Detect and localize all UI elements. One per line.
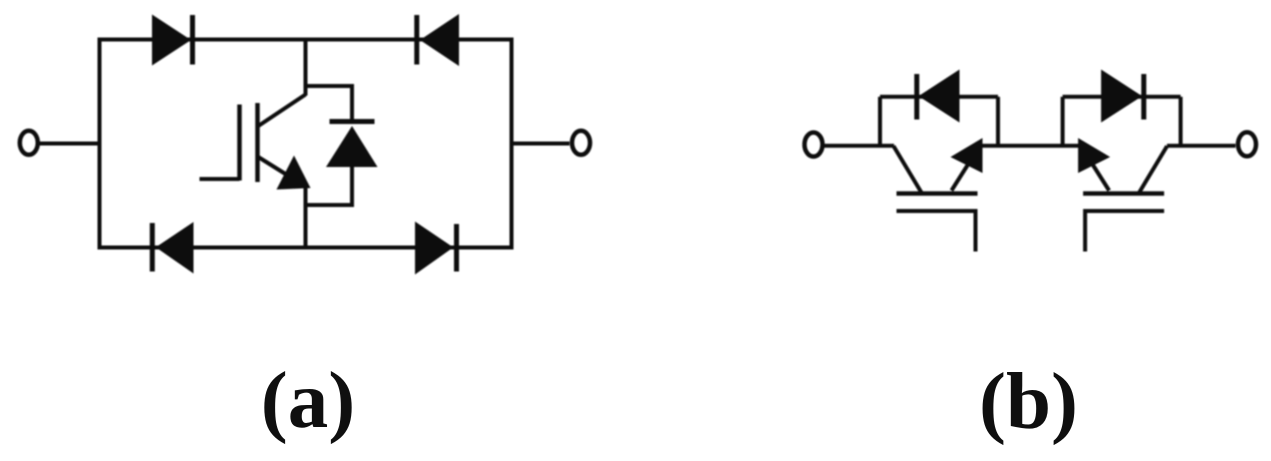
IGBT Q2 emitter diagonal bbox=[952, 155, 975, 191]
IGBT Q2 collector diagonal bbox=[894, 146, 923, 194]
IGBT Q2 emitter arrow bbox=[951, 138, 983, 173]
diode D3 bottom-left triangle bbox=[156, 222, 194, 274]
IGBT Q1 gate lead bbox=[200, 177, 240, 181]
IGBT Q2 diode loop right vertical bbox=[996, 97, 1000, 146]
diode D2 cathode bar bbox=[414, 15, 419, 65]
terminal circle left of circuit (a) bbox=[20, 131, 38, 155]
IGBT Q3 emitter diagonal bbox=[1087, 155, 1110, 191]
diode D4 cathode bar bbox=[454, 224, 459, 272]
IGBT Q3 gate bar and lead bbox=[1085, 211, 1164, 252]
IGBT Q3 diode loop top wire bbox=[1063, 95, 1181, 99]
IGBT Q3 body bar bbox=[1083, 191, 1164, 196]
IGBT Q2 body bar bbox=[897, 191, 978, 196]
diode D3 cathode bar bbox=[150, 223, 155, 272]
freewheel diode D5 triangle bbox=[326, 126, 378, 167]
terminal circle left of circuit (b) bbox=[805, 133, 823, 157]
wire collector tee to freewheel diode top bbox=[306, 86, 353, 124]
diode D7 cathode bar bbox=[1141, 74, 1146, 120]
wire left terminal to IGBT Q2 bbox=[825, 144, 895, 148]
wire bridge to right terminal bbox=[512, 142, 570, 146]
diode D7 triangle bbox=[1101, 70, 1142, 123]
diode D6 triangle bbox=[919, 70, 960, 123]
svg-text:(a): (a) bbox=[261, 355, 355, 445]
IGBT Q2 gate bar and lead bbox=[897, 211, 976, 252]
freewheel diode D5 cathode bar bbox=[330, 119, 375, 124]
wire emitter drop to bottom rail bbox=[304, 186, 308, 248]
terminal circle right of circuit (a) bbox=[572, 131, 590, 155]
diode D4 bottom-right triangle bbox=[415, 222, 453, 275]
diode D1 cathode bar bbox=[190, 15, 195, 65]
diode D6 cathode bar bbox=[914, 74, 919, 120]
IGBT Q3 collector diagonal bbox=[1139, 146, 1168, 194]
IGBT Q2 diode loop left vertical bbox=[878, 97, 882, 146]
IGBT Q3 diode loop right vertical bbox=[1179, 97, 1183, 146]
wire common node between Q2 and Q3 bbox=[981, 144, 1079, 148]
IGBT Q3 diode loop left vertical bbox=[1061, 97, 1065, 146]
terminal circle right of circuit (b) bbox=[1238, 132, 1256, 156]
IGBT Q1 gate bar bbox=[237, 105, 242, 181]
bridge loop wire (rectangle) bbox=[100, 40, 512, 248]
IGBT Q1 emitter arrow bbox=[277, 156, 311, 190]
IGBT Q1 emitter diagonal bbox=[258, 157, 306, 187]
wire collector drop from top rail bbox=[304, 40, 308, 96]
IGBT Q1 body bar bbox=[255, 103, 260, 182]
IGBT Q2 diode loop top wire bbox=[880, 95, 998, 99]
IGBT Q3 emitter arrow bbox=[1078, 138, 1110, 173]
IGBT Q1 collector diagonal bbox=[258, 95, 306, 127]
wire left terminal to bridge bbox=[39, 142, 100, 146]
wire Q3 to right terminal bbox=[1167, 144, 1236, 148]
wire emitter tee to freewheel diode bottom bbox=[306, 166, 353, 205]
svg-text:(b): (b) bbox=[979, 356, 1078, 446]
diode D2 top-right triangle bbox=[420, 14, 459, 66]
diode D1 top-left triangle bbox=[152, 15, 191, 66]
